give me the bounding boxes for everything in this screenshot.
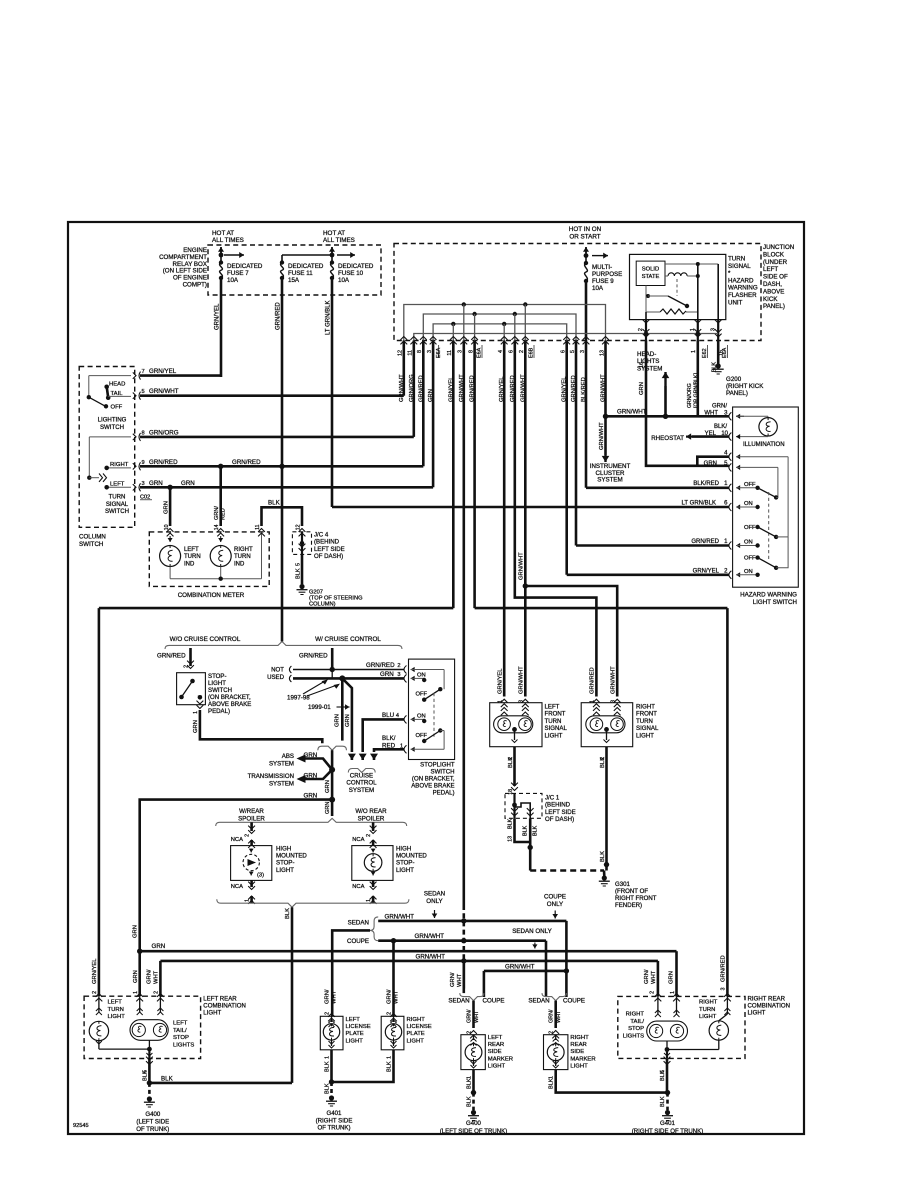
- svg-text:GRN/: GRN/: [387, 989, 393, 1004]
- svg-text:LEFT: LEFT: [173, 1021, 188, 1027]
- row 5 GRN/WHT to junction pin12: [133, 393, 136, 399]
- svg-text:GRN: GRN: [133, 925, 139, 938]
- svg-text:1: 1: [670, 991, 676, 994]
- svg-text:1999-01: 1999-01: [308, 704, 331, 711]
- ground G401 (license): [329, 1095, 334, 1100]
- illumination return inner link: [735, 456, 737, 458]
- left tail/stop lights: [139, 996, 141, 1012]
- row GRN/WHT coupe y940.7: [378, 939, 546, 942]
- right rear side marker stem: [554, 1001, 557, 1028]
- svg-text:FENDER): FENDER): [615, 902, 642, 909]
- wire right marker sedan drop: [545, 941, 548, 997]
- left front turn light BLK output: [513, 747, 516, 786]
- svg-text:ON: ON: [417, 673, 426, 679]
- svg-text:BLK: BLK: [285, 908, 291, 919]
- svg-text:GRN: GRN: [325, 802, 331, 814]
- svg-text:SIDE: SIDE: [570, 1049, 584, 1055]
- svg-text:GRN: GRN: [304, 752, 318, 759]
- svg-text:RED: RED: [382, 743, 396, 750]
- svg-text:TURN: TURN: [109, 494, 126, 501]
- svg-text:GRN: GRN: [669, 971, 675, 984]
- svg-text:SWITCH: SWITCH: [431, 769, 455, 776]
- left combination BLK output: [148, 1059, 151, 1083]
- svg-text:(LEFT SIDE OF TRUNK): (LEFT SIDE OF TRUNK): [440, 1128, 508, 1135]
- svg-text:BLK: BLK: [268, 500, 281, 507]
- svg-text:1997-98: 1997-98: [287, 695, 310, 702]
- wire GRN/YEL-11 long vertical: [452, 341, 455, 609]
- right combination BLK output: [666, 1058, 669, 1092]
- dedicated fuse 11: [280, 260, 284, 264]
- svg-text:10A: 10A: [592, 285, 604, 292]
- svg-text:BLK: BLK: [508, 818, 514, 829]
- svg-text:OF DASH): OF DASH): [314, 553, 343, 560]
- svg-text:NCA: NCA: [231, 837, 243, 843]
- spoiler alternative bracket: [216, 818, 407, 826]
- svg-text:BLK/RED: BLK/RED: [693, 481, 719, 487]
- svg-text:TURN: TURN: [184, 554, 201, 560]
- svg-text:LEFT: LEFT: [545, 704, 560, 711]
- left rear side marker light box: [461, 1035, 485, 1070]
- stop light switch output GRN: [197, 705, 204, 708]
- left high mounted stop light stem: [250, 822, 253, 831]
- right high mounted stop light box: [352, 846, 393, 881]
- svg-text:W/O CRUISE CONTROL: W/O CRUISE CONTROL: [170, 636, 241, 643]
- turn signal switch internals: [88, 437, 90, 478]
- flasher pin 3 wire: [717, 264, 719, 320]
- junction internal drops: [452, 324, 454, 341]
- svg-text:G301: G301: [615, 881, 631, 888]
- svg-text:MULTI-: MULTI-: [592, 264, 612, 271]
- svg-text:(TOP OF STEERING: (TOP OF STEERING: [309, 596, 363, 602]
- svg-text:2: 2: [245, 834, 251, 837]
- svg-text:2: 2: [397, 663, 400, 669]
- page border frame: [68, 222, 804, 1134]
- svg-text:GRN/YEL: GRN/YEL: [215, 303, 221, 330]
- column switch box (dashed): [79, 367, 135, 528]
- svg-text:(BEHIND: (BEHIND: [314, 539, 340, 546]
- svg-text:10A: 10A: [338, 277, 350, 284]
- svg-text:TAIL/: TAIL/: [173, 1028, 187, 1034]
- row 3 GRN: [133, 484, 136, 490]
- svg-text:BLK: BLK: [161, 1075, 174, 1082]
- svg-text:LICENSE: LICENSE: [346, 1024, 371, 1030]
- svg-text:LEFT: LEFT: [488, 1035, 503, 1041]
- svg-text:HAZARD WARNING: HAZARD WARNING: [740, 592, 797, 599]
- wire GRN/YEL long left vertical from y608: [98, 608, 101, 988]
- svg-text:SIDE OF: SIDE OF: [763, 274, 788, 281]
- flasher internal coil L1: [668, 273, 687, 276]
- row GRN/WHT sedan y921: [378, 920, 566, 923]
- svg-text:OFF: OFF: [744, 525, 756, 531]
- svg-text:FUSE 11: FUSE 11: [288, 270, 313, 277]
- svg-text:2: 2: [325, 1012, 331, 1015]
- svg-text:HIGH: HIGH: [396, 846, 411, 853]
- wire stop light switch feed: [189, 648, 192, 666]
- svg-text:REAR: REAR: [570, 1042, 586, 1048]
- svg-text:FUSE 9: FUSE 9: [592, 278, 614, 285]
- svg-text:SIDE: SIDE: [488, 1049, 502, 1055]
- lighting switch internals: [88, 376, 90, 398]
- svg-text:PANEL): PANEL): [763, 303, 785, 310]
- svg-text:NOT: NOT: [271, 667, 284, 674]
- J/C1 outputs BLK: [511, 813, 518, 816]
- engine compartment relay box (dashed): [208, 245, 381, 295]
- svg-text:ABOVE BRAKE: ABOVE BRAKE: [208, 701, 251, 708]
- hazard contact rail right B: [777, 467, 779, 497]
- svg-text:BLK: BLK: [660, 1096, 666, 1107]
- svg-text:GRN: GRN: [704, 461, 717, 467]
- svg-text:PANEL): PANEL): [726, 390, 748, 397]
- svg-text:GRN: GRN: [345, 714, 351, 727]
- license ground link dashed: [330, 1082, 333, 1096]
- wire GRN/YEL rear feed horizontal y608 left segment: [99, 607, 453, 610]
- hazard mechanical link dashed: [768, 492, 770, 561]
- svg-text:BLK: BLK: [387, 1061, 393, 1072]
- right license plate light box: [381, 1016, 404, 1050]
- svg-text:2: 2: [650, 991, 656, 994]
- ground G200: [716, 363, 721, 368]
- svg-text:GRN/RED: GRN/RED: [149, 459, 178, 466]
- svg-text:BLK: BLK: [600, 851, 606, 862]
- svg-text:NCA: NCA: [231, 884, 243, 890]
- svg-text:SEDAN: SEDAN: [528, 998, 549, 1005]
- svg-text:LIGHT: LIGHT: [488, 1063, 506, 1069]
- svg-text:3: 3: [580, 350, 586, 353]
- svg-text:W/ CRUISE CONTROL: W/ CRUISE CONTROL: [315, 636, 381, 643]
- left license plate light box: [320, 1016, 343, 1050]
- wire GRN/ORG-11 stub to turn switch row8: [412, 341, 415, 437]
- wire meter pin10 GRN: [169, 487, 172, 526]
- svg-text:LIGHT: LIGHT: [208, 680, 226, 687]
- svg-text:HAZARD: HAZARD: [728, 277, 754, 284]
- svg-text:FRONT: FRONT: [545, 711, 566, 718]
- svg-text:MOUNTED: MOUNTED: [276, 853, 307, 860]
- svg-text:GRN: GRN: [164, 501, 170, 514]
- svg-text:SIGNAL: SIGNAL: [728, 263, 751, 270]
- svg-text:(3): (3): [257, 873, 264, 879]
- svg-text:SWITCH: SWITCH: [208, 687, 232, 694]
- svg-text:GRN/YEL: GRN/YEL: [92, 958, 98, 984]
- svg-text:BLU: BLU: [382, 712, 394, 719]
- row BLU-4 from stoplight switch: [363, 719, 404, 752]
- svg-text:(FRONT OF: (FRONT OF: [615, 888, 648, 895]
- svg-text:IND: IND: [184, 561, 195, 567]
- svg-text:ALL TIMES: ALL TIMES: [323, 237, 355, 244]
- flasher internal resistor R1: [660, 309, 686, 314]
- svg-text:COMBINATION: COMBINATION: [748, 1003, 791, 1010]
- fuse10 branch arrow right: [337, 254, 355, 256]
- meter internal ground bus: [170, 578, 261, 580]
- svg-text:GRN/: GRN/: [450, 972, 456, 987]
- svg-text:RHEOSTAT: RHEOSTAT: [651, 435, 684, 442]
- left front turn light internals: [501, 708, 508, 711]
- svg-text:FRONT: FRONT: [636, 711, 657, 718]
- svg-text:1: 1: [245, 899, 251, 902]
- svg-text:STOP: STOP: [628, 1026, 644, 1032]
- right tail/stop lights: [657, 996, 659, 1014]
- svg-text:FUSE 10: FUSE 10: [338, 270, 364, 277]
- wire GRN/WHT-3 long vertical (sedan bus): [462, 341, 465, 906]
- wire fuse11 output GRN/RED: [281, 278, 284, 642]
- svg-text:LIGHT: LIGHT: [748, 1010, 766, 1017]
- row BLK/RED-1 from stoplight switch: [374, 749, 404, 752]
- svg-text:JUNCTION: JUNCTION: [763, 244, 794, 251]
- svg-text:RIGHT: RIGHT: [570, 1035, 589, 1041]
- svg-text:GRN: GRN: [380, 671, 394, 678]
- svg-text:COMBINATION: COMBINATION: [203, 1003, 246, 1010]
- svg-text:LIGHT: LIGHT: [699, 1014, 717, 1020]
- svg-text:GRN/WHT: GRN/WHT: [599, 422, 605, 450]
- svg-text:SPOILER: SPOILER: [358, 815, 385, 822]
- svg-text:GRN/: GRN/: [147, 969, 153, 984]
- svg-text:BLK: BLK: [142, 1070, 148, 1081]
- right marker BLK output: [556, 1070, 668, 1093]
- svg-text:(ON BRACKET,: (ON BRACKET,: [208, 694, 251, 701]
- svg-text:W/O REAR: W/O REAR: [355, 808, 387, 815]
- svg-text:FLASHER: FLASHER: [728, 292, 757, 299]
- svg-text:OF TRUNK): OF TRUNK): [136, 1126, 169, 1133]
- wire GRN-16 stub to illumination pin5: [646, 341, 729, 466]
- svg-text:GRN/RED: GRN/RED: [276, 302, 282, 330]
- svg-text:SYSTEM: SYSTEM: [637, 365, 662, 372]
- svg-text:2: 2: [600, 757, 606, 760]
- meter pin 11 BLK bridge to J/C4: [258, 529, 265, 532]
- wire GRN/ORG pin1 stub: [696, 341, 699, 417]
- svg-text:ABS: ABS: [282, 753, 294, 760]
- hazard contact rail right A: [787, 457, 789, 537]
- svg-text:OFF: OFF: [111, 405, 123, 411]
- svg-text:GRN/WHT: GRN/WHT: [149, 388, 179, 395]
- svg-text:RIGHT: RIGHT: [234, 547, 253, 553]
- svg-text:GRN/WHT: GRN/WHT: [519, 552, 525, 580]
- svg-text:3: 3: [610, 700, 616, 703]
- svg-text:LT GRN/BLK: LT GRN/BLK: [326, 301, 332, 335]
- svg-text:PURPOSE: PURPOSE: [592, 271, 622, 278]
- svg-text:W/REAR: W/REAR: [239, 808, 264, 815]
- svg-text:KICK: KICK: [763, 296, 778, 303]
- left combination internal join: [148, 1040, 150, 1049]
- svg-text:OFF: OFF: [744, 556, 756, 562]
- fuse9 branch arrow right: [592, 255, 608, 257]
- wire GRN stub to spoiler bracket: [331, 800, 334, 816]
- wire fuse10 output LT GRN/BLK: [331, 278, 334, 507]
- instrument cluster system arrow: [603, 414, 608, 419]
- wire fuse11 to fuse10 node: [282, 254, 332, 256]
- svg-text:BLK: BLK: [660, 1070, 666, 1081]
- svg-text:(BEHIND: (BEHIND: [545, 802, 571, 809]
- svg-text:GRN/: GRN/: [644, 969, 650, 984]
- svg-text:RIGHT: RIGHT: [626, 1012, 645, 1018]
- svg-text:SWITCH: SWITCH: [79, 541, 103, 548]
- svg-text:2: 2: [508, 757, 514, 760]
- row LT GRN/BLK-6 hazard: [332, 506, 729, 509]
- svg-text:SYSTEM: SYSTEM: [349, 787, 374, 794]
- right license BLK output: [332, 1050, 394, 1082]
- svg-text:1: 1: [590, 700, 596, 703]
- row GRN-5: [729, 463, 732, 471]
- svg-text:ABOVE: ABOVE: [763, 288, 784, 295]
- svg-text:GRN/WHT: GRN/WHT: [415, 933, 445, 940]
- svg-text:LIGHTS: LIGHTS: [173, 1042, 194, 1048]
- svg-text:CRUISE: CRUISE: [350, 773, 373, 780]
- row GRN-3 to stoplight switch: [289, 675, 291, 682]
- svg-text:RIGHT REAR: RIGHT REAR: [748, 996, 786, 1003]
- wire BLK-16 stub to ground G200: [717, 341, 720, 365]
- svg-text:3: 3: [721, 987, 727, 990]
- svg-text:GRN/RED: GRN/RED: [691, 539, 719, 545]
- svg-text:1: 1: [497, 700, 503, 703]
- svg-text:PEDAL): PEDAL): [433, 790, 455, 797]
- turn signal hazard flasher unit box: [630, 254, 726, 319]
- svg-text:OF TRUNK): OF TRUNK): [317, 1125, 350, 1132]
- right rear side marker light box: [544, 1035, 568, 1070]
- row 7 GRN/YEL: [133, 372, 136, 378]
- svg-text:GRN/WHT: GRN/WHT: [617, 409, 647, 416]
- svg-text:DEDICATED: DEDICATED: [288, 263, 324, 270]
- svg-text:3: 3: [397, 672, 400, 678]
- svg-text:LIGHT: LIGHT: [108, 1014, 126, 1020]
- svg-text:G400: G400: [145, 1111, 161, 1118]
- svg-text:GRN/RED: GRN/RED: [721, 955, 727, 982]
- svg-text:WHT: WHT: [474, 1010, 480, 1023]
- svg-text:STOP-: STOP-: [276, 860, 295, 867]
- wire right marker coupe drop: [565, 971, 568, 997]
- svg-text:GRN/WHT: GRN/WHT: [610, 666, 616, 694]
- svg-text:1: 1: [193, 711, 199, 714]
- wire left marker sedan drop: [462, 961, 465, 988]
- svg-text:LIGHT: LIGHT: [545, 732, 563, 739]
- left rear side marker bulb: [465, 1044, 482, 1061]
- svg-text:GRN: GRN: [325, 780, 331, 793]
- fuse 7 feed arrow up: [220, 247, 222, 254]
- svg-text:7: 7: [142, 369, 145, 375]
- svg-text:G400: G400: [466, 1120, 482, 1127]
- svg-text:LIGHTING: LIGHTING: [98, 417, 127, 424]
- wire GRN/WHT left tail pin2: [159, 961, 162, 996]
- svg-text:STOPLIGHT: STOPLIGHT: [420, 762, 455, 769]
- wire fuse7 output GRN/YEL: [220, 278, 223, 377]
- svg-text:GRN/RED: GRN/RED: [232, 459, 261, 466]
- ground G301: [602, 875, 607, 880]
- hazard rail lower right: [776, 537, 788, 568]
- svg-text:SPOILER: SPOILER: [238, 815, 265, 822]
- svg-text:ON: ON: [417, 714, 426, 720]
- svg-text:STOP: STOP: [173, 1035, 189, 1041]
- svg-text:SYSTEM: SYSTEM: [269, 780, 294, 787]
- svg-text:BLK: BLK: [467, 1096, 473, 1107]
- svg-text:LEFT: LEFT: [110, 482, 125, 488]
- junction block bottom connectors: [400, 337, 407, 340]
- cruise alternative bracket: [165, 642, 402, 650]
- svg-text:LT GRN/BLK: LT GRN/BLK: [682, 501, 716, 507]
- wire fuse7 node: [220, 247, 222, 262]
- flasher pin stubs to connector edge: [645, 320, 647, 341]
- svg-text:WHT: WHT: [556, 1010, 562, 1023]
- svg-text:BLK: BLK: [533, 825, 539, 836]
- svg-text:CONTROL: CONTROL: [346, 780, 377, 787]
- svg-text:OR START: OR START: [569, 234, 600, 241]
- left turn indicator bulb: [169, 536, 171, 542]
- svg-text:TRANSMISSION: TRANSMISSION: [248, 773, 294, 780]
- svg-text:TURN: TURN: [234, 554, 251, 560]
- wire GRN/RED-5 stub to hazard pin1 row: [575, 341, 578, 546]
- svg-text:COMBINATION METER: COMBINATION METER: [178, 592, 245, 599]
- wire BLK from stoplights to rear: [291, 907, 294, 1083]
- solid state box U1: [636, 261, 665, 285]
- svg-text:OFF: OFF: [416, 733, 428, 739]
- wire GRN/RED-8b long vertical: [473, 341, 476, 609]
- svg-text:BLK: BLK: [325, 1083, 331, 1094]
- svg-text:LICENSE: LICENSE: [407, 1024, 432, 1030]
- row GRN long y951: [140, 950, 677, 953]
- wire GRN/WHT-13 stub: [604, 341, 607, 417]
- svg-text:GRN/: GRN/: [325, 989, 331, 1004]
- svg-text:3: 3: [142, 481, 145, 487]
- svg-text:HOT IN ON: HOT IN ON: [569, 226, 602, 233]
- svg-text:15A: 15A: [288, 277, 300, 284]
- svg-text:LIGHT SWITCH: LIGHT SWITCH: [753, 599, 797, 606]
- right high mounted stop light bottom stem: [372, 880, 375, 887]
- svg-text:WHT: WHT: [651, 970, 657, 984]
- svg-text:GRN: GRN: [335, 714, 341, 727]
- svg-text:5: 5: [142, 389, 145, 395]
- wire GRN/RED-6 to right front turn pin1: [515, 341, 597, 697]
- svg-text:9: 9: [142, 460, 145, 466]
- wire left marker coupe drop: [483, 971, 486, 997]
- svg-text:HOT AT: HOT AT: [323, 230, 345, 237]
- right rear side marker bulb: [547, 1044, 564, 1061]
- left marker BLK to ground: [472, 1070, 475, 1093]
- svg-text:COUPE: COUPE: [563, 998, 585, 1005]
- svg-text:10A: 10A: [227, 277, 239, 284]
- right combination internal join: [666, 1041, 668, 1050]
- wire GRN/YEL-6 stub to hazard pin2 row: [565, 341, 568, 575]
- svg-text:DASH,: DASH,: [763, 281, 782, 288]
- svg-text:3: 3: [519, 700, 525, 703]
- fuse 11 top wire: [281, 255, 283, 262]
- svg-text:UNIT: UNIT: [728, 299, 743, 306]
- row GRN/WHT-3 to illumination: [606, 415, 729, 418]
- svg-text:TAIL/: TAIL/: [630, 1019, 644, 1025]
- flasher internal top rail: [665, 263, 718, 265]
- svg-text:(UNDER: (UNDER: [763, 259, 788, 266]
- svg-text:MARKER: MARKER: [488, 1056, 513, 1062]
- right license plate bulb: [393, 1016, 395, 1022]
- svg-text:DEDICATED: DEDICATED: [338, 263, 374, 270]
- svg-text:TURN: TURN: [728, 256, 745, 263]
- svg-text:GRN/WHT: GRN/WHT: [385, 913, 415, 920]
- svg-text:2: 2: [184, 665, 190, 668]
- illumination internal wire top: [736, 415, 744, 417]
- left license plate bulb: [331, 1016, 333, 1022]
- svg-text:GRN/WHT: GRN/WHT: [519, 666, 525, 694]
- svg-text:BLK: BLK: [523, 825, 529, 836]
- svg-text:BLK: BLK: [325, 1061, 331, 1072]
- svg-text:SYSTEM: SYSTEM: [269, 760, 294, 767]
- wire GRN down to right rear tail pin1: [675, 951, 678, 988]
- ABS system arrow: [305, 759, 332, 770]
- svg-text:SWITCH: SWITCH: [100, 424, 124, 431]
- svg-text:2: 2: [154, 991, 160, 994]
- svg-text:WHT: WHT: [704, 411, 718, 417]
- right high mounted stop light bulb: [364, 854, 382, 872]
- svg-text:COUPE: COUPE: [544, 894, 566, 901]
- svg-text:LIGHTS: LIGHTS: [637, 358, 659, 365]
- row BLK/RED-1 hazard: [586, 486, 729, 489]
- svg-text:13: 13: [508, 836, 514, 842]
- stop light switch contacts: [179, 695, 184, 700]
- right front turn light BLK output: [605, 747, 608, 871]
